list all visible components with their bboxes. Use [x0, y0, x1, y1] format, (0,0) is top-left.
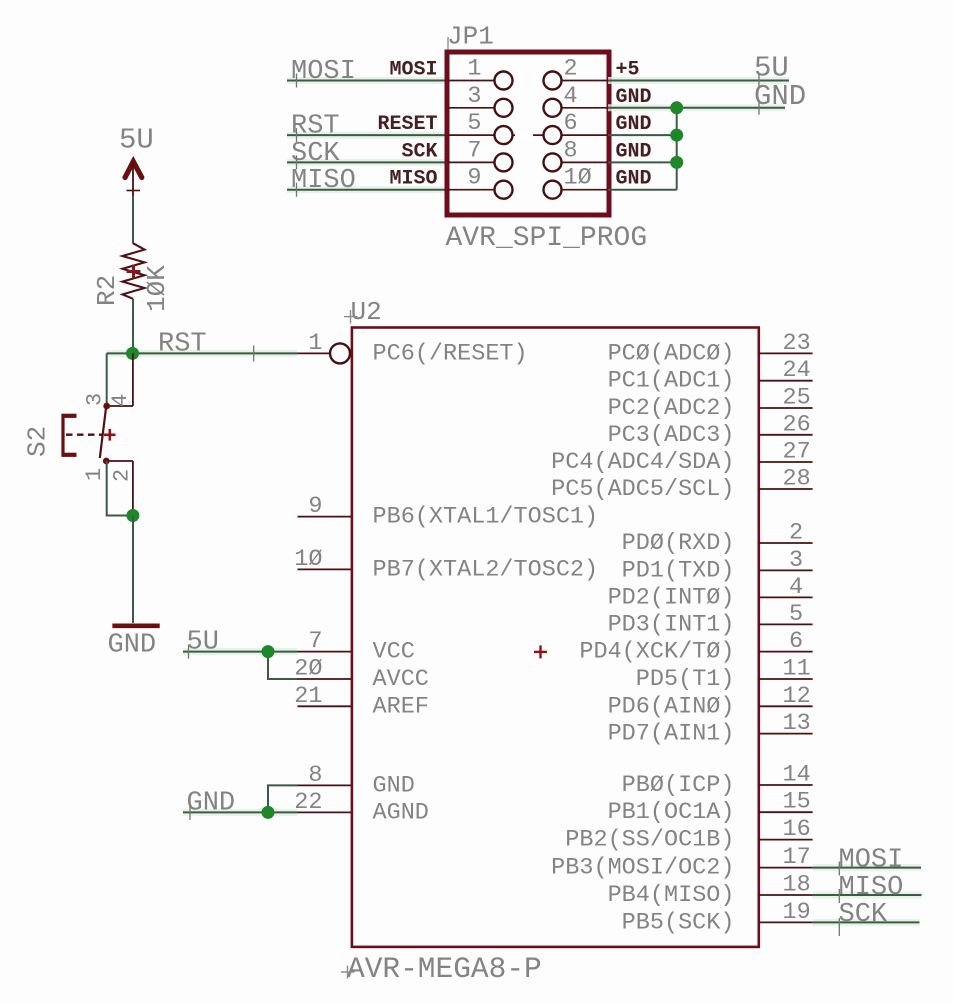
svg-text:MOSI: MOSI: [839, 846, 904, 876]
U2 origin cross: [534, 645, 547, 658]
svg-text:1: 1: [467, 56, 481, 83]
svg-text:26: 26: [783, 411, 811, 438]
U2 pin 13 line: [759, 733, 813, 735]
svg-text:19: 19: [783, 899, 811, 926]
net label MISO: [291, 166, 356, 197]
U2 pin 20 line: [298, 678, 352, 680]
wire net RST horizontal: [107, 350, 298, 357]
U2 pin 22 line: [298, 811, 352, 813]
U2 pin 1 line: [298, 343, 351, 363]
net label GND (at AGND): [187, 789, 236, 821]
svg-text:PD5(T1): PD5(T1): [636, 666, 735, 693]
U2 pin 12 line: [759, 705, 813, 707]
U2 pin 2 line: [759, 542, 813, 544]
resistor R2 origin cross: [127, 265, 141, 279]
svg-text:SCK: SCK: [839, 900, 888, 930]
junction GND/pin8: [670, 156, 683, 169]
JP1 pin 6 (right, row 3): [533, 110, 608, 144]
svg-text:PB3(MOSI/OC2): PB3(MOSI/OC2): [551, 855, 734, 882]
junction GND/pin4: [670, 101, 683, 114]
junction node switch/GND: [126, 509, 139, 522]
svg-text:PD1(TXD): PD1(TXD): [622, 557, 735, 584]
wire net 5V to VCC/AVCC: [183, 652, 298, 679]
U2 pin 10 line: [298, 568, 352, 570]
svg-text:2: 2: [109, 469, 134, 482]
svg-text:GND: GND: [108, 631, 157, 661]
svg-text:PD4(XCK/TØ): PD4(XCK/TØ): [579, 639, 734, 666]
svg-text:PC3(ADC3): PC3(ADC3): [608, 422, 735, 449]
svg-text:2Ø: 2Ø: [294, 656, 322, 683]
U2 pin 28 line: [759, 488, 813, 490]
svg-text:PB6(XTAL1/TOSC1): PB6(XTAL1/TOSC1): [373, 504, 599, 531]
svg-text:VCC: VCC: [373, 639, 415, 666]
svg-text:2: 2: [789, 520, 803, 547]
svg-text:PB4(MISO): PB4(MISO): [608, 882, 735, 909]
svg-text:27: 27: [783, 439, 811, 466]
connector JP1 value AVR_SPI_PROG: [446, 223, 648, 254]
svg-text:PB2(SS/OC1B): PB2(SS/OC1B): [565, 827, 734, 854]
wire net GND to AGND/GND: [183, 785, 298, 812]
svg-text:AVCC: AVCC: [373, 666, 429, 693]
svg-text:AVR_SPI_PROG: AVR_SPI_PROG: [446, 223, 648, 254]
svg-text:1: 1: [308, 330, 322, 357]
svg-text:23: 23: [783, 330, 811, 357]
svg-text:GND: GND: [616, 140, 652, 163]
U2 pin 8 line: [298, 784, 352, 786]
wire net 5V from JP1 pin 2: [608, 77, 789, 84]
net label SCK: [291, 139, 340, 170]
svg-text:PD3(INT1): PD3(INT1): [608, 611, 735, 638]
svg-text:3: 3: [83, 393, 108, 406]
svg-text:GND: GND: [373, 772, 415, 799]
U2 pin 15 line: [759, 811, 813, 813]
U2 pin 23 line: [759, 352, 813, 354]
svg-text:PC1(ADC1): PC1(ADC1): [608, 368, 735, 395]
svg-text:12: 12: [783, 683, 811, 710]
svg-text:13: 13: [783, 710, 811, 737]
svg-text:GND: GND: [616, 168, 652, 191]
svg-text:MISO: MISO: [291, 166, 356, 196]
U2 pin 26 line: [759, 434, 813, 436]
wire 5V to R2: [132, 196, 134, 244]
svg-text:PB5(SCK): PB5(SCK): [622, 909, 735, 936]
wire RST down to switch: [106, 353, 108, 403]
svg-text:1: 1: [82, 468, 107, 481]
svg-text:4: 4: [564, 83, 578, 110]
switch S2 pin 4 line: [132, 353, 134, 406]
junction GND/pin6: [670, 129, 683, 142]
svg-text:MISO: MISO: [839, 873, 904, 903]
svg-text:8: 8: [564, 137, 578, 164]
JP1 pin 9 (left, row 5): [448, 165, 513, 199]
svg-text:PBØ(ICP): PBØ(ICP): [622, 772, 735, 799]
svg-text:6: 6: [564, 110, 578, 137]
U2 pin 11 line: [759, 678, 813, 680]
switch S2 pin 2 line: [132, 461, 134, 516]
svg-text:PC2(ADC2): PC2(ADC2): [608, 395, 735, 422]
wire net SCK to JP1: [287, 159, 445, 166]
svg-text:4: 4: [108, 394, 133, 407]
svg-text:28: 28: [783, 466, 811, 493]
svg-text:PC5(ADC5/SCL): PC5(ADC5/SCL): [551, 476, 734, 503]
supply 5V pin: [127, 162, 141, 196]
U2 pin 24 line: [759, 380, 813, 382]
JP1 pin 8 (right, row 4): [544, 137, 609, 171]
svg-text:AGND: AGND: [373, 799, 429, 826]
svg-text:3: 3: [789, 547, 803, 574]
connector JP1 name label: [447, 22, 494, 52]
svg-text:JP1: JP1: [447, 22, 494, 52]
svg-text:GND: GND: [754, 80, 806, 113]
U2 pin 7 line: [298, 651, 352, 653]
svg-text:5: 5: [789, 601, 803, 628]
svg-text:1Ø: 1Ø: [294, 546, 322, 573]
net label RST: [158, 330, 254, 362]
svg-text:AREF: AREF: [373, 693, 429, 720]
svg-text:1ØK: 1ØK: [142, 265, 172, 312]
wire net MOSI to JP1: [287, 77, 445, 84]
svg-text:PB1(OC1A): PB1(OC1A): [608, 799, 735, 826]
JP1 pin 1 (left, row 1): [448, 56, 513, 90]
U2 pin 19 line: [759, 921, 813, 923]
U2 pin 4 line: [759, 596, 813, 598]
U2 pin 16 line: [759, 839, 813, 841]
ground symbol GND: [112, 623, 159, 628]
switch S2 pin 3 junction: [103, 403, 110, 410]
JP1 pin 3 (left, row 2): [448, 83, 513, 117]
net label MOSI (bottom): [839, 846, 904, 876]
switch S2 contact arm: [100, 408, 106, 458]
net label GND (top right): [754, 80, 806, 115]
JP1 pin 2 (right, row 1): [544, 56, 609, 90]
svg-text:7: 7: [467, 137, 481, 164]
svg-text:S2: S2: [23, 426, 53, 457]
svg-text:14: 14: [783, 762, 811, 789]
svg-text:U2: U2: [351, 297, 382, 327]
svg-text:21: 21: [294, 683, 322, 710]
switch S2 button bracket: [62, 414, 77, 457]
net label SCK (bottom): [839, 900, 888, 936]
wire net MISO to JP1: [287, 186, 445, 193]
svg-text:17: 17: [783, 844, 811, 871]
svg-text:7: 7: [308, 628, 322, 655]
svg-text:2: 2: [564, 56, 578, 83]
svg-text:PD6(AINØ): PD6(AINØ): [608, 693, 735, 720]
svg-text:5U: 5U: [187, 628, 219, 658]
wire GND from JP1 pin 8: [608, 161, 677, 163]
svg-text:6: 6: [789, 628, 803, 655]
svg-text:24: 24: [783, 357, 811, 384]
JP1 pin 10 (right, row 5): [544, 165, 609, 199]
junction GND node: [262, 806, 275, 819]
wire net SCK from PB5: [813, 919, 920, 926]
net label RST: [291, 112, 340, 143]
U2 pin 9 line: [298, 516, 352, 518]
svg-text:22: 22: [294, 789, 322, 816]
svg-text:11: 11: [783, 656, 811, 683]
U2 pin 18 line: [759, 894, 813, 896]
supply 5V arrow symbol: [125, 162, 142, 178]
net label 5V (at VCC): [187, 628, 219, 659]
U2 pin 21 line: [298, 705, 352, 707]
U2 pin 5 line: [759, 623, 813, 625]
net label 5V: [754, 52, 789, 88]
svg-text:9: 9: [308, 493, 322, 520]
svg-text:GND: GND: [187, 789, 236, 819]
U2 pin 25 line: [759, 407, 813, 409]
svg-text:PD2(INTØ): PD2(INTØ): [608, 584, 735, 611]
svg-text:8: 8: [308, 762, 322, 789]
switch S2 pin 1 junction: [103, 458, 110, 465]
JP1 pin 7 (left, row 4): [448, 137, 513, 171]
switch S2 actuator dashed line: [66, 434, 103, 436]
svg-text:4: 4: [789, 574, 803, 601]
U2 pin 27 line: [759, 461, 813, 463]
wire GND vertical bus: [676, 108, 678, 190]
wire net MISO from PB4: [813, 892, 922, 899]
U2 pin 3 line: [759, 569, 813, 571]
switch S2 bottom contact bar: [106, 460, 133, 462]
svg-text:5: 5: [467, 110, 481, 137]
svg-text:RST: RST: [291, 112, 340, 142]
wire net MOSI from PB3: [813, 864, 921, 871]
svg-text:AVR-MEGA8-P: AVR-MEGA8-P: [347, 952, 542, 986]
svg-text:9: 9: [467, 165, 481, 192]
U2 pin 6 line: [759, 651, 813, 653]
junction node RST: [126, 347, 139, 360]
IC U2 body: [352, 328, 759, 947]
switch S2 top contact bar: [107, 405, 133, 407]
JP1 pin 5 (left, row 3): [448, 110, 515, 144]
wire to GND symbol: [132, 516, 134, 624]
wire R2 to RST node: [132, 299, 134, 354]
net label MISO (bottom): [839, 873, 904, 903]
svg-text:PC4(ADC4/SDA): PC4(ADC4/SDA): [551, 449, 734, 476]
svg-text:PD7(AIN1): PD7(AIN1): [608, 721, 735, 748]
svg-text:PCØ(ADCØ): PCØ(ADCØ): [608, 340, 735, 367]
wire GND from JP1 pin 10: [608, 189, 677, 191]
svg-text:PDØ(RXD): PDØ(RXD): [622, 530, 735, 557]
svg-text:5U: 5U: [119, 124, 154, 157]
svg-text:PB7(XTAL2/TOSC2): PB7(XTAL2/TOSC2): [373, 556, 599, 583]
svg-text:18: 18: [783, 872, 811, 899]
wire net RST to JP1: [287, 132, 445, 139]
svg-text:MOSI: MOSI: [291, 57, 356, 87]
U2 pin 14 line: [759, 784, 813, 786]
connector JP1 body: [447, 52, 609, 215]
svg-text:GND: GND: [616, 113, 652, 136]
svg-text:15: 15: [783, 789, 811, 816]
svg-text:SCK: SCK: [291, 139, 340, 169]
IC U2 value AVR-MEGA8-P: [341, 952, 542, 986]
svg-text:1Ø: 1Ø: [564, 165, 592, 192]
junction 5V node: [262, 645, 275, 658]
resistor R2 zigzag: [123, 243, 145, 299]
U2 pin 17 line: [759, 867, 813, 869]
wire net GND from JP1 pin 4: [608, 104, 785, 111]
wire switch pin1 to GND node: [107, 461, 133, 516]
svg-text:16: 16: [783, 816, 811, 843]
IC U2 name label: [344, 297, 382, 327]
svg-text:25: 25: [783, 385, 811, 412]
JP1 pin 4 (right, row 2): [544, 83, 609, 117]
switch S2 origin cross: [104, 429, 116, 441]
svg-text:3: 3: [467, 83, 481, 110]
svg-text:R2: R2: [92, 275, 122, 306]
wire GND from JP1 pin 6: [608, 134, 677, 136]
svg-text:PC6(/RESET): PC6(/RESET): [373, 340, 528, 367]
net label MOSI: [291, 57, 356, 88]
svg-text:RST: RST: [158, 330, 207, 360]
